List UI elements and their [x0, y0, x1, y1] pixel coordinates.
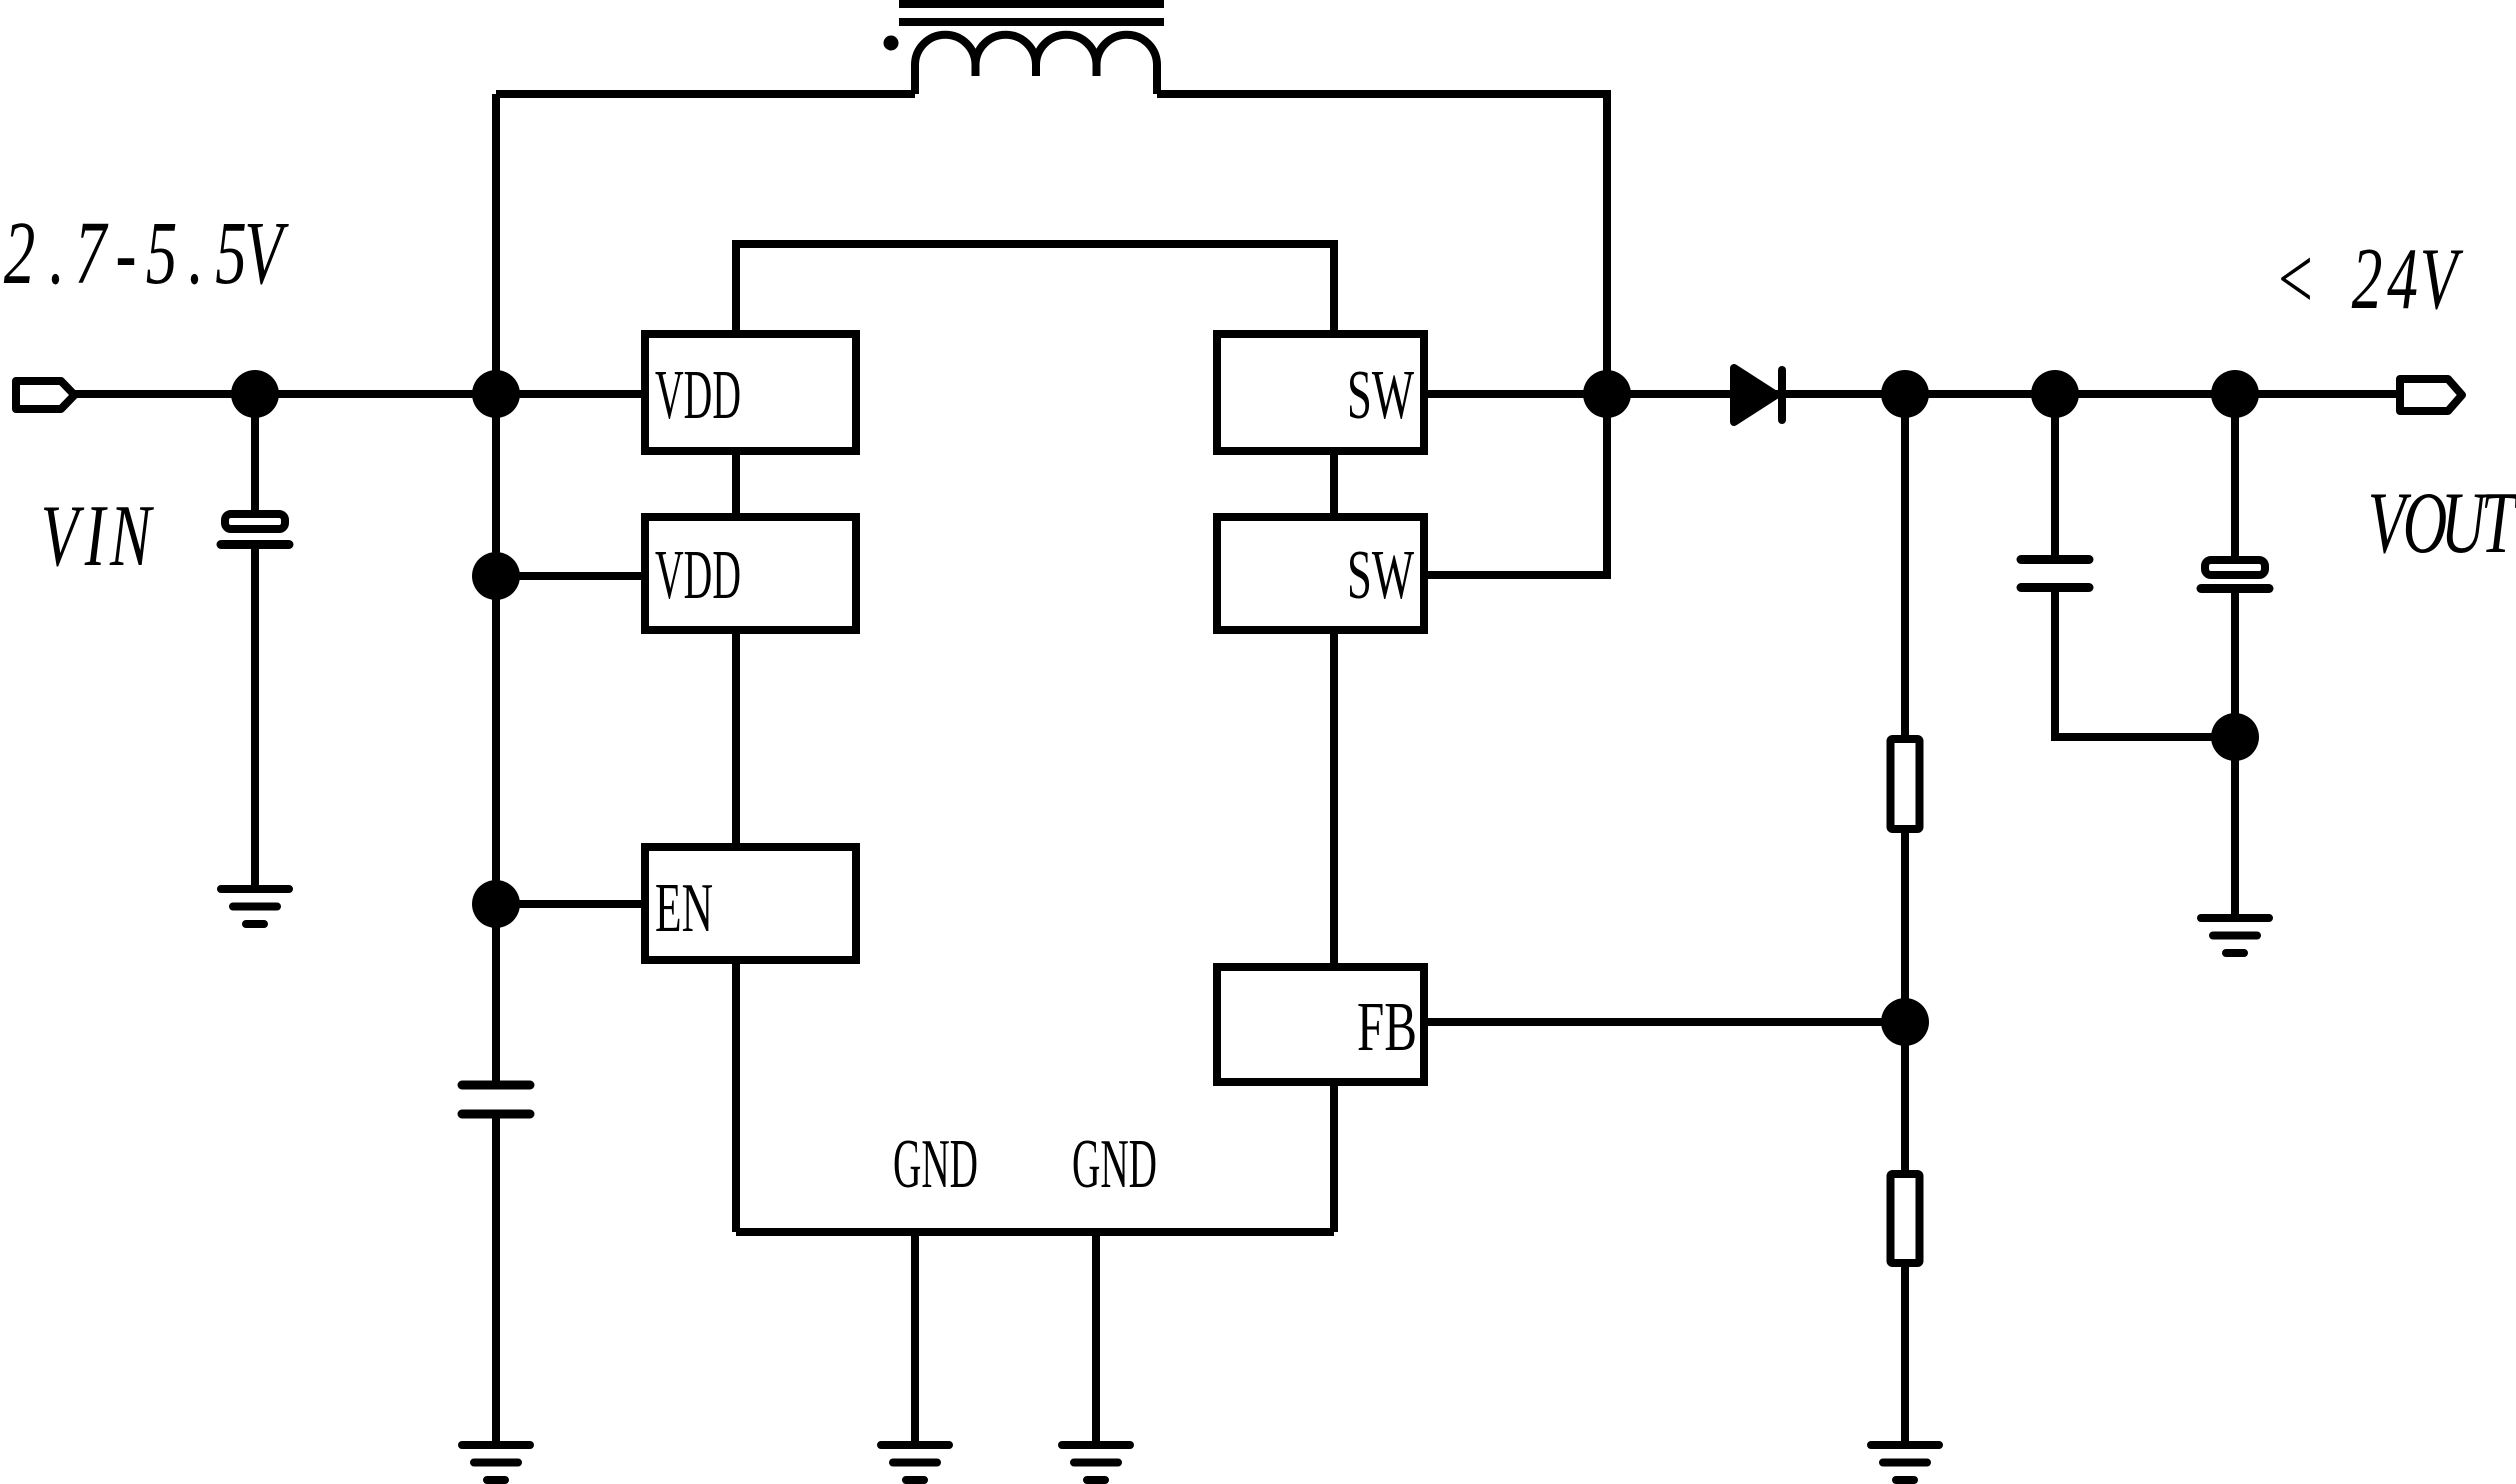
svg-text:V: V: [2420, 230, 2464, 327]
svg-text:I: I: [84, 487, 108, 584]
svg-text:2: 2: [4, 203, 36, 303]
svg-text:T: T: [2481, 474, 2516, 571]
svg-text:VDD: VDD: [655, 537, 741, 614]
svg-text:<: <: [2274, 230, 2316, 327]
svg-text:2: 2: [2352, 230, 2383, 327]
svg-text:4: 4: [2387, 230, 2418, 327]
svg-text:7: 7: [75, 203, 109, 303]
svg-text:GND: GND: [1072, 1126, 1157, 1203]
svg-text:EN: EN: [655, 870, 713, 947]
svg-text:FB: FB: [1357, 989, 1417, 1066]
svg-text:V: V: [244, 203, 289, 303]
svg-text:-: -: [116, 203, 137, 303]
svg-text:SW: SW: [1347, 357, 1414, 434]
svg-text:5: 5: [146, 203, 178, 303]
svg-text:SW: SW: [1347, 537, 1414, 614]
svg-text:GND: GND: [893, 1126, 978, 1203]
svg-text:V: V: [41, 487, 85, 584]
svg-text:.: .: [49, 203, 65, 303]
svg-text:N: N: [109, 487, 154, 584]
svg-text:.: .: [188, 203, 204, 303]
svg-text:5: 5: [215, 203, 247, 303]
svg-text:VDD: VDD: [655, 357, 741, 434]
